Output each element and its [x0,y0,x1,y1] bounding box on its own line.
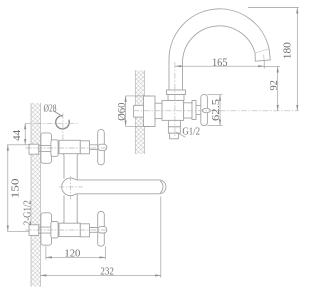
bottom handle stem [90,228,99,233]
spout pipe [72,180,158,194]
wall inlet block [134,105,146,117]
leader [54,111,61,115]
handle hub [192,101,196,120]
centerlines [25,122,79,124]
outlet nipple [170,133,179,139]
riser flange [167,90,186,95]
wall (right view) [135,70,144,154]
ext nozzle [263,60,265,68]
riser centerline [174,62,176,138]
svg-text:G1/2: G1/2 [182,126,200,137]
dim 44 [24,123,26,145]
bottom inlet pipe [39,227,51,233]
top cartridge housing [80,141,89,154]
top handle hub [98,144,107,150]
riser neck [168,95,184,101]
top inlet pipe [39,146,51,152]
centerline top valve [26,147,108,149]
dim 232 [160,196,162,277]
nozzle joint line [255,49,269,53]
bottom nut [51,222,58,238]
svg-text:Ø28: Ø28 [44,103,57,114]
svg-text:92: 92 [268,80,280,90]
dim 150 [7,145,9,232]
centerlines (drawn on top) [26,62,299,230]
nozzle centerline tick [263,55,265,61]
dim O60 [126,95,150,97]
svg-text:62.5: 62.5 [210,98,222,121]
ext top 180 [248,7,299,9]
svg-text:44: 44 [11,129,23,141]
top wall block [29,144,39,154]
right view axis centerline [133,110,299,112]
bottom handle bar [98,212,105,247]
spout hub circle (gooseneck seen from top) [62,178,80,196]
svg-text:165: 165 [212,57,228,69]
gooseneck tube: outer arc [169,9,269,63]
top nut [51,140,58,157]
handle stem [196,106,201,115]
bottom handle hub [98,227,107,233]
dim 92 [277,67,279,111]
G1/2 leader [176,132,185,137]
spout centerline horizontal [59,186,84,188]
svg-text:2-G1/2: 2-G1/2 [22,200,33,225]
body column [64,156,77,223]
Ø28 handle circle detail [25,111,79,142]
handle front spoke [202,108,210,112]
top handle bar [98,130,105,165]
circle with gap at top-right [56,116,66,129]
svg-text:120: 120 [64,247,80,259]
ext lines 44/150 [7,144,30,146]
spout centerline vertical [70,176,72,200]
svg-text:180: 180 [282,42,294,60]
bottom escutcheon [41,213,52,245]
nozzle tip [255,49,270,61]
valve extension [184,103,192,118]
dim 120 [45,246,47,259]
top handle stem [90,145,99,150]
top valve body [59,140,80,153]
top escutcheon [41,133,52,163]
centerline bottom valve [26,229,108,231]
gooseneck tube: inner arc [182,26,255,90]
drop piece lower [168,127,180,133]
svg-text:232: 232 [100,266,114,278]
body block [162,100,184,120]
collar [155,103,162,118]
dim 62.5 [207,94,222,96]
wall (left view) [31,103,41,287]
column fillets [62,154,79,224]
svg-text:150: 150 [10,178,22,199]
svg-text:Ø60: Ø60 [116,102,128,121]
spout tip caps [159,180,166,194]
bottom cartridge housing [80,224,89,237]
dim 180 [296,8,298,111]
handle bar (edge-on) [201,95,208,126]
drop piece upper [168,120,180,126]
bottom valve body [59,223,80,236]
right view dimensions [126,8,299,127]
left view dimensions [7,123,161,277]
escutcheon disc [144,96,156,127]
bottom wall block [29,225,39,236]
dim 165 [175,65,264,67]
